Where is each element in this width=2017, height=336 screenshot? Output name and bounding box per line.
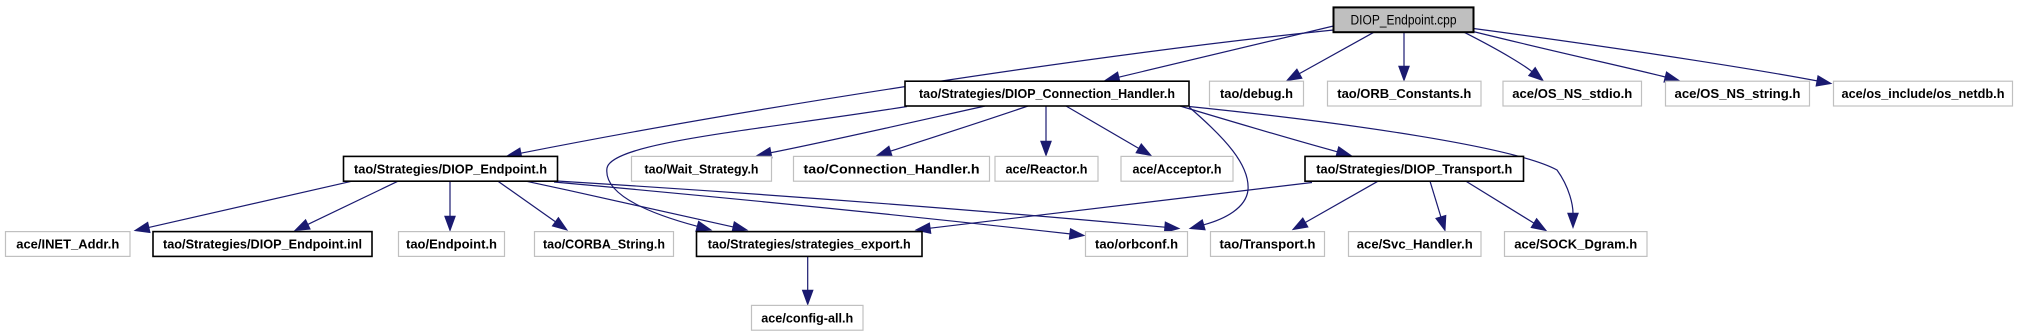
edge DIOP_Endpoint.h -> DIOP_Endpoint.inl [295,181,398,230]
tao/debug.h node [1210,81,1304,106]
svg-text:ace/Svc_Handler.h: ace/Svc_Handler.h [1357,237,1473,252]
edge DIOP_Connection_Handler.h -> ace/Acceptor.h [1066,106,1151,156]
ace/OS_NS_string.h node [1666,81,1810,106]
edge DIOP_Connection_Handler.h -> ace/Reactor.h [1041,106,1051,156]
ace/os_include/os_netdb.h node [1834,81,2013,106]
svg-text:DIOP_Endpoint.cpp: DIOP_Endpoint.cpp [1351,12,1457,27]
tao/CORBA_String.h node [535,232,674,257]
DIOP_Endpoint.cpp node [1334,7,1474,32]
edge DIOP_Endpoint.h -> tao/CORBA_String.h [498,181,567,230]
ace/INET_Addr.h node [6,232,131,257]
edge DIOP_Endpoint.h -> tao/orbconf.h left [554,182,1084,239]
svg-text:tao/Strategies/DIOP_Endpoint.h: tao/Strategies/DIOP_Endpoint.h [354,161,547,176]
tao/ORB_Constants.h node [1328,81,1482,106]
edge DIOP_Connection_Handler.h -> tao/Wait_Strategy.h [757,106,985,158]
ace/config-all.h node [752,305,864,330]
svg-text:tao/Wait_Strategy.h: tao/Wait_Strategy.h [645,161,759,176]
ace/OS_NS_stdio.h node [1503,81,1642,106]
edge DIOP_Endpoint.cpp -> ace/os_include/os_netdb.h [1474,29,1832,87]
tao/Strategies/DIOP_Connection_Handler.h node [905,81,1189,106]
edge DIOP_Transport.h -> tao/Transport.h [1293,181,1378,229]
svg-text:tao/Strategies/DIOP_Endpoint.i: tao/Strategies/DIOP_Endpoint.inl [163,237,362,252]
edge DIOP_Connection_Handler.h -> tao/Connection_Handler.h [877,106,1028,156]
svg-text:tao/orbconf.h: tao/orbconf.h [1095,237,1178,252]
edge DIOP_Endpoint.h -> tao/orbconf.h top [557,181,1179,232]
ace/SOCK_Dgram.h node [1505,232,1648,257]
edge DIOP_Endpoint.cpp -> DIOP_Connection_Handler.h [1105,26,1334,82]
edge DIOP_Endpoint.h -> strategies_export.h [526,181,747,232]
tao/orbconf.h node [1086,232,1188,257]
edge DIOP_Connection_Handler.h -> tao/orbconf.h [1189,107,1248,230]
svg-text:ace/SOCK_Dgram.h: ace/SOCK_Dgram.h [1514,237,1637,252]
tao/Endpoint.h node [399,232,505,257]
svg-text:tao/Transport.h: tao/Transport.h [1220,237,1316,252]
edge DIOP_Transport.h -> ace/SOCK_Dgram.h [1466,181,1546,230]
edge DIOP_Endpoint.h -> ace/INET_Addr.h [135,181,352,232]
svg-text:ace/Reactor.h: ace/Reactor.h [1006,161,1088,176]
svg-text:ace/config-all.h: ace/config-all.h [761,310,853,325]
edge DIOP_Connection_Handler.h -> DIOP_Transport.h [1180,106,1351,157]
svg-text:tao/Connection_Handler.h: tao/Connection_Handler.h [804,161,980,176]
ace/Reactor.h node [995,156,1098,181]
svg-text:ace/OS_NS_string.h: ace/OS_NS_string.h [1675,86,1801,101]
edge DIOP_Transport.h -> strategies_export.h [916,183,1312,234]
edge DIOP_Endpoint.cpp -> DIOP_Endpoint.h [507,30,1334,158]
tao/Transport.h node [1211,232,1325,257]
ace/Svc_Handler.h node [1349,232,1482,257]
svg-text:ace/Acceptor.h: ace/Acceptor.h [1133,161,1222,176]
svg-text:tao/ORB_Constants.h: tao/ORB_Constants.h [1337,86,1471,101]
edge DIOP_Endpoint.cpp -> ace/OS_NS_string.h [1473,32,1679,83]
edge DIOP_Endpoint.h -> tao/Endpoint.h [445,181,455,230]
svg-text:ace/os_include/os_netdb.h: ace/os_include/os_netdb.h [1842,86,2005,101]
edge DIOP_Endpoint.cpp -> tao/debug.h [1287,32,1374,80]
svg-text:tao/Strategies/DIOP_Connection: tao/Strategies/DIOP_Connection_Handler.h [919,86,1175,101]
tao/Connection_Handler.h node [794,156,990,181]
svg-text:tao/Endpoint.h: tao/Endpoint.h [406,237,497,252]
svg-text:tao/Strategies/DIOP_Transport.: tao/Strategies/DIOP_Transport.h [1316,161,1512,176]
tao/Strategies/DIOP_Endpoint.inl node [153,232,372,257]
edge DIOP_Endpoint.cpp -> ace/OS_NS_stdio.h [1464,32,1543,80]
svg-text:tao/CORBA_String.h: tao/CORBA_String.h [543,237,665,252]
tao/Strategies/strategies_export.h node [697,232,923,257]
svg-text:ace/INET_Addr.h: ace/INET_Addr.h [16,237,119,252]
tao/Strategies/DIOP_Endpoint.h node [344,156,558,181]
tao/Strategies/DIOP_Transport.h node [1305,156,1524,181]
edge DIOP_Connection_Handler.h -> strategies_export.h [607,107,907,232]
edge DIOP_Endpoint.cpp -> tao/ORB_Constants.h [1399,32,1409,80]
edge DIOP_Connection_Handler.h -> ace/SOCK_Dgram.h [1189,107,1578,228]
edge DIOP_Transport.h -> ace/Svc_Handler.h [1430,181,1446,230]
svg-text:ace/OS_NS_stdio.h: ace/OS_NS_stdio.h [1512,86,1632,101]
ace/Acceptor.h node [1121,156,1233,181]
svg-text:tao/debug.h: tao/debug.h [1220,86,1293,101]
tao/Wait_Strategy.h node [632,156,772,181]
svg-text:tao/Strategies/strategies_expo: tao/Strategies/strategies_export.h [708,237,911,252]
edge strategies_export.h -> ace/config-all.h [803,256,813,304]
